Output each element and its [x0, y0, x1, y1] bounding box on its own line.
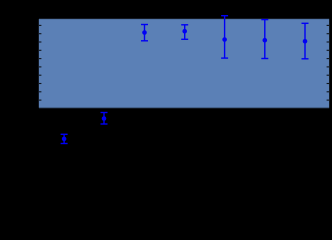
errorbar point 7 [302, 23, 309, 59]
errorbar point 6 [261, 20, 268, 59]
errorbar point 4 [181, 25, 188, 40]
left axis ticks [39, 25, 41, 100]
right axis ticks [327, 25, 329, 100]
errorbar point 3 [141, 25, 148, 41]
errorbar point 1 [61, 134, 68, 143]
errorbar point 2 [101, 113, 108, 125]
errorbar point 5 [221, 16, 228, 58]
shaded confidence band [39, 19, 329, 108]
